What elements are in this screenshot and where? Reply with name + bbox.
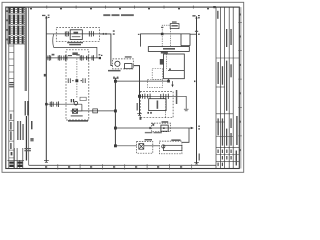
right edge band line <box>240 7 242 168</box>
dashed vertical in BOX2 <box>166 54 168 70</box>
aux contact box <box>93 109 98 113</box>
label inside DBM top <box>72 52 77 55</box>
junction arrow at bus C feeder1 <box>191 126 200 130</box>
label under DB1 <box>67 42 83 45</box>
tick left of BOX1 corner <box>138 34 140 35</box>
feeder2 dashed box A <box>137 142 153 154</box>
junction bus A motor tap <box>45 103 48 106</box>
top zone numerals <box>30 8 209 9</box>
contact K3 <box>57 101 59 107</box>
rotated text in device box <box>157 101 159 109</box>
wire through feeder2 boxes <box>144 145 160 147</box>
switchboard BOX1 <box>141 34 191 47</box>
lower motor wire to bus B <box>71 110 116 112</box>
stub termination x186 <box>184 108 189 110</box>
dashed enclosure DB3 (feeder cells) <box>140 92 173 118</box>
junction tie-BOX2 <box>167 80 170 83</box>
meter device rect <box>125 64 133 69</box>
drop loop x53.6 <box>52 34 55 48</box>
jog down to lower motor wire <box>71 104 82 111</box>
small text block mid strip <box>9 82 13 87</box>
label above-left BOX2 <box>161 52 168 54</box>
wire DB1 to corner x110.9 <box>100 34 113 66</box>
rotated text column right of strip (upper) <box>25 101 29 116</box>
feeder2 wire y145.8 <box>115 145 136 147</box>
label under DB2 <box>108 70 121 72</box>
rotated label left of riser <box>137 103 138 111</box>
extra ticks row right <box>87 56 89 61</box>
X box in feeder2 A <box>139 144 144 150</box>
breaker S4 on row <box>80 55 83 61</box>
rotated labels in lower ladder <box>10 114 11 149</box>
breaker row symbol B3 <box>161 94 164 99</box>
solid device rect feeder1 <box>161 125 168 131</box>
junction bus B tie <box>114 80 117 83</box>
tie junction blob <box>75 79 78 82</box>
text block right of strip bottom <box>24 148 31 151</box>
label above feeder2 A <box>145 139 153 141</box>
drawout breaker blob left edge BOX2 <box>160 59 164 65</box>
shelf line in BOX2 <box>168 69 184 71</box>
zone letter ticks right band <box>238 22 242 136</box>
two tiny rotated marks right of strip <box>31 121 34 141</box>
motor meter circle <box>74 101 78 105</box>
E mark in feeder1 box <box>152 124 154 126</box>
meter label box <box>170 21 179 28</box>
label above feeder1 box <box>162 121 169 123</box>
junction tick before feeder1 box <box>149 127 151 129</box>
feeder1 dashed box <box>151 123 170 132</box>
node marks end of row <box>99 54 103 59</box>
bus C (switchgear bus right) <box>195 16 197 164</box>
junction riser x139.5 <box>138 95 141 98</box>
text row under feeder1 box <box>145 132 162 133</box>
rotated text block lower strip <box>17 121 23 140</box>
riser x53.6 to row y58 <box>54 47 97 58</box>
label under DBM <box>68 120 88 122</box>
breaker S5 on row <box>92 55 94 61</box>
dark rotated streak lower right of strip <box>26 116 27 161</box>
label in slab <box>163 48 175 50</box>
tie wire bus B to BOX2 riser <box>115 80 168 82</box>
breaker row symbol B2 <box>148 94 150 99</box>
meter M1 circle <box>115 61 120 66</box>
rotated text streaks in title block <box>217 11 237 166</box>
breaker row symbol B1 <box>143 94 145 99</box>
breaker S3 on row <box>64 55 67 61</box>
main breaker BOX2 <box>164 54 185 79</box>
label above row mid <box>76 54 79 55</box>
tie contacts row y80.6 <box>68 78 85 83</box>
breaker row symbol B4 <box>166 94 168 99</box>
dashed drop CT2 in BOX1 <box>169 29 171 47</box>
feeder1 wire y128 <box>115 127 193 129</box>
label above S3 <box>68 55 72 56</box>
dot left of bus C <box>194 81 195 83</box>
motor feeder wire y104.2 <box>46 103 82 105</box>
row number dots left of table <box>6 10 7 40</box>
bus B top T-bar <box>113 77 119 79</box>
breaker S2 on row <box>58 55 61 61</box>
bus A bottom termination <box>44 161 49 163</box>
stub arrow down from tie <box>171 81 173 87</box>
dashed cell divider in DBM <box>76 59 78 99</box>
wire BOX1 to bus C <box>190 33 197 35</box>
zone blob top of title block <box>213 6 216 8</box>
DB3 corner tick <box>140 117 142 120</box>
label box above S1 <box>52 54 55 56</box>
bus B (main vertical bus) <box>114 78 116 146</box>
overload X box <box>72 109 77 113</box>
junction diamonds on wire <box>102 33 107 35</box>
top-left schedule table <box>8 8 25 44</box>
dashed enclosure DBM (MCC column) <box>66 50 89 120</box>
bus A (utility feeder bus) <box>45 16 47 162</box>
top zone band ticks <box>47 6 194 9</box>
rotated label right of bus C bottom <box>199 154 200 161</box>
dashed enclosure DB2 (metering) <box>113 59 134 69</box>
circle mark in feeder2 B <box>162 145 165 148</box>
ref marks right of corner <box>113 30 115 34</box>
dashed enclosure DB1 (utility panel) <box>56 28 99 42</box>
label above DB2 <box>125 56 132 57</box>
junction CT riser on BOX1 top <box>161 33 164 35</box>
DB3 divider <box>165 96 167 117</box>
rotated notes streak pair <box>24 8 26 91</box>
riser tie up into BOX2 <box>168 79 170 81</box>
SPARE rotated label <box>176 90 178 104</box>
horizontal dividers <box>216 58 239 161</box>
dot in feeder1 device <box>163 127 165 129</box>
tick top of CT riser <box>161 27 163 28</box>
dashed CT riser to meter <box>162 25 170 46</box>
outer border frame <box>2 2 244 172</box>
sheet title text top center <box>103 14 134 16</box>
fuse F1 in DB1 <box>65 31 68 37</box>
small box upper right DBM <box>80 97 86 100</box>
wire bus A to DB1 <box>46 33 56 35</box>
bus C bottom termination <box>194 162 199 164</box>
bottom zone band <box>29 164 216 166</box>
dashed CT enclosure lower <box>148 80 163 88</box>
text row in DBM lower <box>71 115 83 116</box>
bottom-left table <box>8 148 25 168</box>
feeder2 dashed box B <box>159 141 182 154</box>
ticks under device box <box>147 112 151 114</box>
wire through DB1 <box>56 33 99 35</box>
fuse F2 on motor feeder <box>50 101 53 107</box>
junction bus B feeder1 <box>114 127 117 130</box>
device box U1 in DB1 <box>70 30 82 40</box>
riser termination marks <box>137 114 142 116</box>
bus A mid tick <box>44 74 46 77</box>
junction bus B motor aux <box>114 110 117 113</box>
breaker S1 on row <box>48 55 51 61</box>
tie dots <box>72 80 81 81</box>
breaker row wire y96.3 <box>140 96 187 109</box>
middle ladder rows (upper) <box>9 46 14 79</box>
wire DB2 to riser x139.5 <box>133 66 139 116</box>
inner drawing frame <box>6 7 240 168</box>
slab in feeder2 B <box>163 145 182 150</box>
strip boundary verticals <box>9 7 29 168</box>
device box in DB3 <box>149 99 166 111</box>
node marks bus C top <box>192 15 199 35</box>
lower ladder rows <box>9 111 14 158</box>
feeder row y58 from bus A <box>46 57 98 59</box>
shelf tick <box>169 69 171 70</box>
junction bus B feeder2 <box>114 144 117 147</box>
dashed CT enclosure upper <box>152 69 162 80</box>
node label bus A top <box>42 15 50 18</box>
bus slab under BOX1 <box>148 47 189 52</box>
riser link feeder2 up <box>182 128 189 142</box>
breaker CB1 in DB1 <box>89 31 93 37</box>
small marks bottom cells <box>218 150 237 167</box>
label above feeder2 B <box>171 139 180 141</box>
contactor marks above wire <box>71 99 74 102</box>
